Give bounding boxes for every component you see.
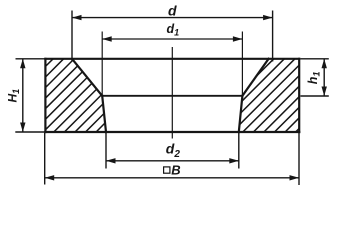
dimension square-B <box>45 133 299 185</box>
dimension d1 <box>102 32 242 96</box>
arrowhead h1 bottom <box>322 87 327 97</box>
right outer edge <box>298 59 300 132</box>
svg-text:B: B <box>171 162 180 177</box>
label h1 <box>306 72 322 85</box>
left bore edge <box>102 96 106 132</box>
center axis line <box>171 47 173 139</box>
hatching right piece <box>240 59 300 132</box>
arrowhead d1 left <box>102 36 112 41</box>
arrowhead d left <box>72 15 82 20</box>
dimension d2 <box>106 133 239 169</box>
arrowhead d1 right <box>233 36 243 41</box>
right bore edge <box>239 96 243 132</box>
dimension H1 <box>15 59 45 132</box>
arrowhead d2 left <box>106 158 116 163</box>
arrowhead h1 top <box>322 59 327 69</box>
label H1 <box>5 89 21 103</box>
dimension d <box>72 11 273 62</box>
arrowhead H1 top <box>20 59 25 69</box>
countersink bottom line <box>102 95 242 97</box>
top face edge <box>45 58 299 60</box>
arrowhead B right <box>290 175 300 180</box>
left countersink cone face <box>72 59 102 96</box>
arrowhead B left <box>45 175 55 180</box>
arrowhead d2 right <box>229 158 239 163</box>
bottom face edge <box>45 131 299 133</box>
left outer edge <box>44 59 46 132</box>
hatching left piece <box>45 59 105 132</box>
washer body outline <box>45 59 299 132</box>
arrowhead H1 bottom <box>20 123 25 133</box>
svg-text:d: d <box>168 3 177 19</box>
right countersink cone face <box>242 59 268 96</box>
dimension h1 <box>301 59 329 96</box>
arrowhead d right <box>263 15 273 20</box>
label square B <box>164 167 170 173</box>
